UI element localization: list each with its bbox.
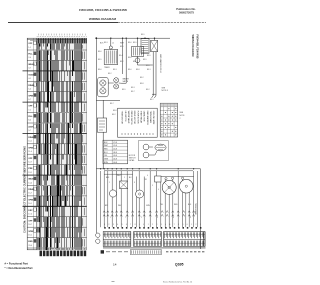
svg-text:WIRING DIAGRAM: WIRING DIAGRAM (89, 17, 117, 21)
svg-text:BK-2: BK-2 (140, 77, 144, 79)
strip right bracket (203, 232, 205, 247)
svg-text:SPIN: SPIN (28, 95, 33, 97)
svg-text:MAIN HARNESS: MAIN HARNESS (146, 111, 149, 126)
svg-text:BK-5: BK-5 (143, 59, 147, 61)
wire left spine mid (95, 100, 97, 169)
wire down from pressure switch (102, 132, 104, 169)
svg-text:PRE: PRE (28, 168, 33, 170)
svg-text:9-7: 9-7 (28, 130, 31, 132)
svg-text:FWX445B, FDX445B: FWX445B, FDX445B (196, 35, 199, 59)
svg-text:14: 14 (113, 262, 117, 266)
svg-text:9: 9 (139, 224, 140, 226)
svg-text:L7-N: L7-N (113, 142, 118, 144)
drive motor winding M2b (180, 179, 194, 193)
svg-text:MAIN HARNESS PLUG: MAIN HARNESS PLUG (159, 54, 162, 74)
svg-text:TERM BOARD: TERM BOARD (149, 111, 152, 124)
svg-text:BK-2: BK-2 (112, 114, 116, 116)
wire left drop (95, 38, 97, 100)
svg-text:BK-6: BK-6 (133, 61, 137, 63)
svg-text:BK-5: BK-5 (120, 46, 124, 48)
bottom marks row (130, 250, 161, 255)
motor top stems (165, 178, 167, 180)
svg-text:2: 2 (141, 217, 142, 219)
svg-text:8: 8 (135, 224, 136, 226)
svg-text:RINSE: RINSE (28, 189, 35, 191)
parts code table (103, 140, 128, 164)
svg-text:LID SWITCH: LID SWITCH (124, 111, 126, 122)
svg-text:CAUTION: DISCONNECT ELECTRIC C: CAUTION: DISCONNECT ELECTRIC CURRENT BEF… (22, 146, 26, 233)
svg-text:BK-1: BK-1 (147, 69, 151, 71)
svg-text:DRY: DRY (28, 210, 33, 212)
svg-text:GROUND WIRE: GROUND WIRE (152, 111, 154, 125)
timer chart frame (27, 38, 86, 250)
svg-text:6: 6 (147, 175, 148, 177)
svg-text:16-1: 16-1 (28, 203, 32, 205)
sub-bus wires (161, 175, 194, 177)
svg-text:TIMER: TIMER (104, 67, 110, 69)
wire pair to water valve (122, 38, 124, 74)
svg-text:SPIN: SPIN (28, 200, 33, 202)
svg-text:TERM BOARD: TERM BOARD (194, 203, 197, 216)
svg-text:5: 5 (124, 177, 125, 179)
lid switch S2 (132, 46, 144, 56)
svg-text:1: 1 (110, 217, 111, 219)
svg-text:7: 7 (125, 217, 126, 219)
svg-text:WHT: WHT (117, 175, 121, 177)
wire color legend box (118, 108, 158, 137)
svg-text:L0-N: L0-N (113, 162, 118, 164)
label column cells (34, 41, 37, 44)
svg-text:2: 2 (109, 182, 110, 184)
svg-text:5995272075: 5995272075 (179, 11, 194, 15)
svg-text:BK-5: BK-5 (147, 55, 151, 57)
wire top bus (96, 37, 171, 39)
svg-text:TIMER MOTOR: TIMER MOTOR (121, 111, 123, 125)
svg-text:0: 0 (187, 224, 188, 226)
terminal board connector strip (103, 232, 131, 247)
svg-text:6: 6 (126, 224, 127, 226)
svg-text:19-1: 19-1 (28, 234, 32, 236)
wire chevrons (103, 211, 195, 217)
svg-text:NOTE: NOTE (180, 115, 186, 117)
svg-text:YEL: YEL (104, 155, 107, 157)
water valve V1 (98, 77, 109, 96)
chart column header marks (39, 34, 86, 36)
wire left drop lower (95, 169, 97, 233)
svg-text:BK-8: BK-8 (136, 69, 140, 71)
header rule (8, 21, 118, 23)
svg-text:14-4: 14-4 (28, 182, 32, 184)
drive motor winding M2a (162, 180, 176, 194)
svg-text:13-1: 13-1 (28, 172, 32, 174)
chart bottom marker blocks (40, 251, 43, 257)
svg-text:L3-N: L3-N (113, 155, 118, 157)
svg-text:3: 3 (152, 185, 153, 187)
svg-text:YEL: YEL (160, 204, 163, 206)
svg-text:BK-0: BK-0 (128, 42, 132, 44)
svg-text:8: 8 (134, 182, 135, 184)
svg-text:L6-N: L6-N (113, 159, 118, 161)
chart right symbol column (83, 45, 85, 250)
svg-text:2: 2 (196, 224, 197, 226)
switch S3 (120, 181, 128, 189)
svg-text:BK-6: BK-6 (98, 69, 102, 71)
chart scan wash (37, 38, 87, 250)
timer motor M1 (104, 50, 118, 65)
svg-text:1: 1 (191, 224, 192, 226)
svg-text:11-4: 11-4 (28, 151, 31, 153)
svg-text:3: 3 (156, 224, 157, 226)
svg-text:12-7: 12-7 (28, 161, 32, 163)
svg-text:17-4: 17-4 (28, 214, 32, 216)
svg-text:L2-N: L2-N (113, 145, 118, 147)
svg-text:5-4: 5-4 (28, 89, 31, 91)
svg-text:CAPACITOR: CAPACITOR (143, 111, 146, 122)
svg-text:BK-0: BK-0 (128, 69, 132, 71)
svg-text:WATER VALVE: WATER VALVE (127, 111, 130, 124)
svg-text:WATER: WATER (123, 78, 130, 81)
svg-text:BK-3: BK-3 (113, 69, 117, 71)
chart row grid lines (27, 40, 86, 248)
svg-text:BK-7: BK-7 (131, 91, 135, 93)
relay K1 (141, 39, 149, 54)
svg-text:START RELAY: START RELAY (140, 111, 143, 124)
svg-text:9: 9 (157, 217, 158, 219)
svg-text:BK-5: BK-5 (98, 59, 102, 61)
svg-text:BK-5: BK-5 (141, 34, 145, 36)
svg-text:2: 2 (109, 224, 110, 226)
wire right border (200, 169, 202, 249)
svg-text:RINSE: RINSE (28, 85, 35, 87)
svg-text:5: 5 (165, 224, 166, 226)
svg-text:WHT: WHT (118, 205, 122, 207)
svg-text:BK-5: BK-5 (146, 65, 150, 67)
svg-text:Sears, Roebuck and Co. Part: Sears, Roebuck and Co. Part No. 14 (163, 280, 192, 283)
svg-text:BK-8: BK-8 (113, 110, 117, 112)
svg-text:1-1: 1-1 (28, 47, 31, 49)
svg-text:BK-7: BK-7 (150, 99, 154, 101)
svg-text:VALVE: VALVE (123, 80, 129, 83)
svg-text:BK-4: BK-4 (119, 55, 123, 57)
svg-text:7: 7 (174, 224, 175, 226)
heavy cam bars (40, 60, 81, 249)
svg-text:3: 3 (113, 224, 114, 226)
svg-text:BK-5: BK-5 (122, 89, 126, 91)
svg-text:4: 4 (117, 224, 118, 226)
svg-text:4-1: 4-1 (28, 78, 31, 80)
bus junction dots (110, 38, 111, 39)
svg-text:1: 1 (148, 224, 149, 226)
wire pair below relay (152, 52, 154, 96)
wires into relays (144, 37, 146, 39)
svg-text:BK-2: BK-2 (146, 89, 150, 91)
small junction box (155, 176, 161, 182)
start switch K2 (151, 40, 158, 51)
pump motor B1 (109, 190, 116, 197)
svg-text:BK-3: BK-3 (131, 87, 135, 89)
svg-text:SPIN: SPIN (28, 147, 33, 149)
svg-text:DRIVE MOTOR: DRIVE MOTOR (133, 111, 135, 125)
svg-text:0: 0 (143, 224, 144, 226)
svg-text:2: 2 (180, 118, 181, 120)
chart header band (37, 38, 87, 43)
svg-text:20-4: 20-4 (28, 245, 32, 247)
svg-text:5: 5 (122, 224, 123, 226)
svg-text:# = Functional Part: # = Functional Part (5, 262, 28, 266)
svg-text:4: 4 (173, 217, 174, 219)
svg-text:L5-N: L5-N (113, 149, 118, 151)
svg-text:PUMP MOTOR: PUMP MOTOR (136, 111, 138, 124)
svg-text:L1: L1 (112, 43, 114, 45)
svg-text:QS95: QS95 (175, 262, 184, 266)
svg-text:AGIT: AGIT (28, 126, 34, 129)
valve solenoid coils (114, 78, 119, 83)
svg-text:15-7: 15-7 (28, 193, 32, 195)
svg-text:6: 6 (190, 217, 191, 219)
svg-text:WIRING DIAGRAM: WIRING DIAGRAM (191, 35, 194, 57)
svg-text:* = Non-Illustrated Part: * = Non-Illustrated Part (5, 266, 33, 270)
svg-text:4: 4 (158, 189, 159, 191)
svg-text:BK-6: BK-6 (98, 51, 102, 53)
svg-text:4: 4 (161, 224, 162, 226)
svg-text:6-7: 6-7 (28, 99, 31, 101)
pressure switch box (97, 118, 106, 132)
svg-text:BK-7: BK-7 (110, 103, 114, 105)
drain valve B2 (136, 190, 144, 198)
svg-text:FWX445B, FDX445B & FWX645B: FWX445B, FDX445B & FWX645B (79, 8, 128, 12)
svg-text:10-1: 10-1 (28, 141, 32, 143)
svg-text:9: 9 (183, 224, 184, 226)
svg-text:BK-2: BK-2 (108, 73, 112, 75)
svg-text:8: 8 (178, 224, 179, 226)
svg-text:6: 6 (169, 224, 170, 226)
svg-text:3-7: 3-7 (28, 68, 31, 70)
svg-text:7-1: 7-1 (28, 109, 31, 111)
bus junction dots (100, 168, 101, 169)
left pump circles (96, 233, 100, 237)
svg-text:BK-5: BK-5 (133, 42, 137, 44)
wire lower bus (96, 168, 200, 170)
svg-text:18-7: 18-7 (28, 224, 32, 226)
svg-text:BK-2: BK-2 (120, 61, 124, 63)
chart top ticks (37, 36, 87, 38)
svg-text:8-4: 8-4 (28, 120, 31, 122)
terminal board base line (103, 247, 206, 249)
svg-text:L8-N: L8-N (113, 152, 118, 154)
svg-text:2-4: 2-4 (28, 57, 31, 59)
svg-text:END: END (28, 241, 33, 243)
wire to pressure switch (96, 99, 120, 101)
chart section lines (23, 71, 87, 206)
svg-text:1: 1 (104, 224, 105, 226)
svg-text:SPIN: SPIN (28, 231, 33, 233)
terminal dot row (104, 227, 106, 229)
wire valve links (108, 82, 114, 84)
lower wire drops (101, 171, 198, 227)
svg-text:DETAIL: DETAIL (129, 159, 135, 162)
svg-text:GRN: GRN (104, 159, 109, 161)
motor switch detail (138, 141, 168, 161)
svg-text:BK-8: BK-8 (140, 83, 144, 85)
svg-text:NOTE 3: NOTE 3 (162, 90, 169, 92)
timer cam tracks (dense vertical lines) (38, 44, 81, 250)
svg-text:BK-3: BK-3 (104, 42, 108, 44)
svg-text:7: 7 (130, 224, 131, 226)
svg-text:2: 2 (152, 224, 153, 226)
svg-text:Publication No.: Publication No. (176, 7, 196, 11)
cycle chart table (160, 103, 177, 137)
svg-text:3: 3 (200, 224, 201, 226)
svg-text:BK-6: BK-6 (128, 57, 132, 59)
svg-text:PRESS SWITCH: PRESS SWITCH (130, 111, 132, 126)
